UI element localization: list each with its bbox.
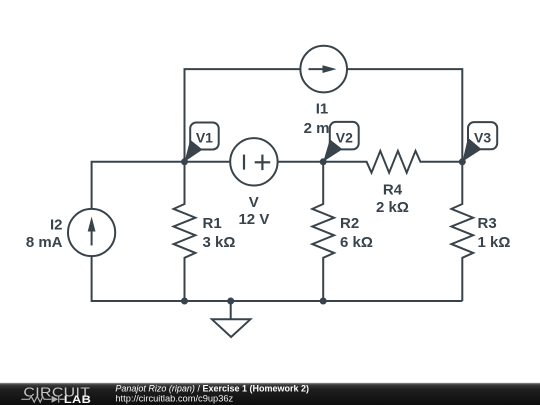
footer bar xyxy=(0,383,540,405)
node flag V1 xyxy=(185,123,219,162)
svg-text:I2: I2 xyxy=(50,217,63,234)
svg-text:R4: R4 xyxy=(383,181,403,198)
junction dot V3 xyxy=(459,158,466,165)
junction dot bottom R1 xyxy=(181,298,188,305)
wire V1 node to V left terminal xyxy=(185,161,231,163)
wire V right terminal to V2 node xyxy=(278,161,324,163)
svg-text:12 V: 12 V xyxy=(238,211,269,228)
svg-text:LAB: LAB xyxy=(64,393,91,405)
node flag V3 xyxy=(462,122,497,162)
junction dot bottom R2 xyxy=(320,298,327,305)
svg-text:V1: V1 xyxy=(196,130,213,146)
label R2 value xyxy=(340,215,373,251)
svg-text:V: V xyxy=(249,194,259,211)
node flag V2 xyxy=(323,122,358,162)
svg-text:Panajot Rizo (ripan) / Exercis: Panajot Rizo (ripan) / Exercise 1 (Homew… xyxy=(115,383,309,393)
svg-text:V3: V3 xyxy=(474,129,491,145)
wire middle-left (V1 node to left rail, down to I2 top) xyxy=(92,162,185,209)
resistor R2 xyxy=(312,162,334,301)
resistor R4 xyxy=(323,151,462,173)
label I2 value xyxy=(26,217,63,252)
svg-text:R1: R1 xyxy=(203,215,222,232)
svg-text:8 mA: 8 mA xyxy=(26,234,63,251)
junction dot V1 xyxy=(181,158,188,165)
svg-text:6 kΩ: 6 kΩ xyxy=(340,234,373,251)
label R4 value xyxy=(376,181,409,216)
junction dot ground xyxy=(227,298,234,305)
svg-text:I1: I1 xyxy=(316,100,329,117)
voltage source V xyxy=(230,138,277,185)
svg-text:2 kΩ: 2 kΩ xyxy=(376,199,409,216)
label V value xyxy=(238,194,269,228)
current source I1 xyxy=(300,46,347,93)
svg-text:R2: R2 xyxy=(340,215,359,232)
svg-text:3 kΩ: 3 kΩ xyxy=(203,234,236,251)
wire bottom rail xyxy=(185,300,463,302)
wire top-right corner (I1 right terminal to V3 node) xyxy=(347,69,462,162)
wire bottom-left (I2 bottom to bottom rail corner) xyxy=(92,256,185,301)
current source I2 xyxy=(68,209,115,256)
label I1 value xyxy=(304,100,341,137)
label R1 value xyxy=(203,215,236,251)
junction dot V2 xyxy=(320,158,327,165)
wire top-left corner (V1 up to top rail, to I1 left terminal) xyxy=(185,69,301,162)
svg-text:http://circuitlab.com/c9up36z: http://circuitlab.com/c9up36z xyxy=(115,394,233,404)
svg-text:V2: V2 xyxy=(336,129,353,145)
svg-text:1 kΩ: 1 kΩ xyxy=(478,234,511,251)
label R3 value xyxy=(478,215,511,251)
CircuitLab logo xyxy=(21,386,91,405)
resistor R1 xyxy=(174,162,196,301)
ground xyxy=(212,301,251,337)
svg-text:R3: R3 xyxy=(478,215,497,232)
resistor R3 xyxy=(451,162,473,301)
